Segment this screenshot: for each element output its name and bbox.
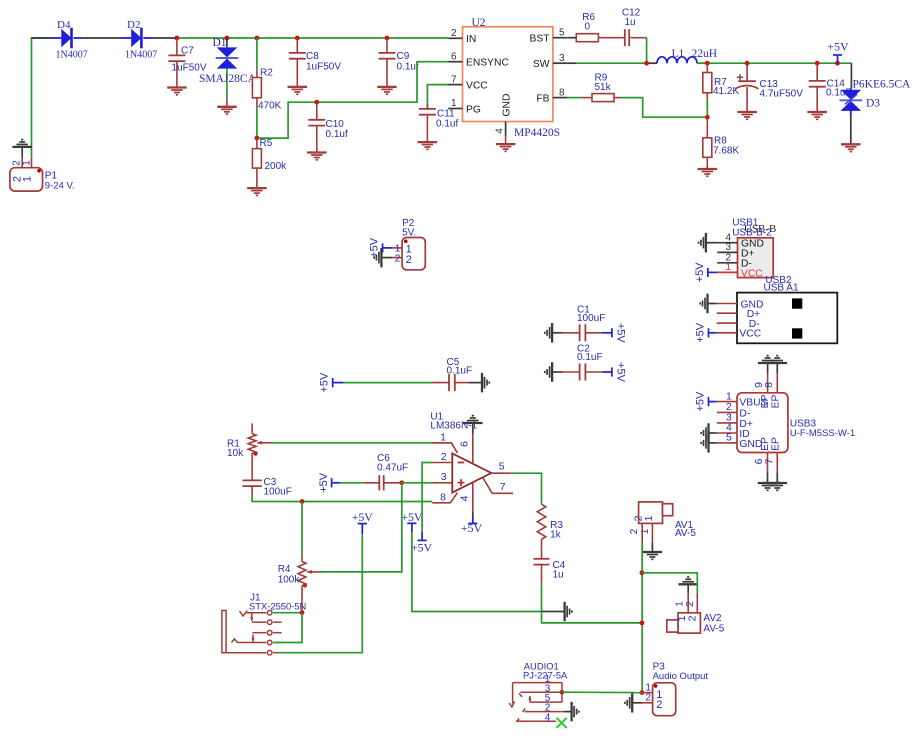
connector USB3 U-F-M5SS-W-1 bbox=[737, 393, 788, 453]
pin 4 GND bbox=[505, 122, 507, 136]
svg-text:2: 2 bbox=[685, 601, 696, 607]
pin 7 EP USB3 bottom bbox=[776, 453, 778, 473]
resistor R9 51k bbox=[581, 97, 592, 99]
svg-text:200k: 200k bbox=[265, 161, 288, 172]
wire rail to D3 bbox=[850, 63, 852, 88]
power flag +5V C1 bbox=[602, 332, 612, 334]
switch arrow J1 row3 bbox=[251, 635, 254, 642]
svg-text:0.1uf: 0.1uf bbox=[436, 119, 458, 130]
wire ENSYNC net bbox=[258, 62, 449, 138]
capacitor C7 bbox=[176, 38, 178, 55]
svg-text:U-F-M5SS-W-1: U-F-M5SS-W-1 bbox=[790, 428, 855, 439]
wire R1 wiper to U1 pin1 bbox=[272, 442, 452, 444]
diode D4 bbox=[52, 37, 62, 39]
pin 2 AV2 bbox=[696, 593, 698, 612]
ground USB3 bottom pins bbox=[758, 483, 778, 490]
svg-text:GND: GND bbox=[501, 94, 512, 117]
svg-text:7: 7 bbox=[451, 74, 457, 85]
connector AV2 AV-5 bbox=[678, 613, 700, 633]
ground USB3 pin4 bbox=[701, 423, 708, 443]
ground R8 bbox=[698, 169, 718, 176]
pin 8 FB bbox=[553, 97, 567, 99]
svg-text:2: 2 bbox=[629, 528, 640, 534]
svg-text:1u: 1u bbox=[553, 570, 564, 581]
svg-text:R5: R5 bbox=[260, 138, 273, 149]
svg-text:7: 7 bbox=[764, 458, 776, 464]
svg-text:+5V: +5V bbox=[401, 510, 423, 524]
resistor R8 7.68K bbox=[706, 117, 708, 138]
node R4 tap junction bbox=[300, 499, 305, 504]
svg-text:+5V: +5V bbox=[352, 510, 374, 524]
svg-text:R2: R2 bbox=[260, 68, 273, 79]
capacitor C6 0.47uF bbox=[363, 482, 380, 484]
svg-text:1: 1 bbox=[674, 601, 685, 607]
svg-text:SMAJ28CA: SMAJ28CA bbox=[199, 73, 257, 85]
switch arrow J1 row1 bbox=[250, 613, 253, 621]
svg-text:+5V: +5V bbox=[694, 262, 706, 283]
diode D3 TVS P6KE6.5CA bbox=[850, 88, 852, 91]
svg-text:6: 6 bbox=[459, 441, 471, 447]
svg-text:7.68K: 7.68K bbox=[713, 145, 739, 156]
svg-text:2: 2 bbox=[656, 699, 662, 711]
svg-text:8: 8 bbox=[763, 382, 775, 388]
pin 5 GND USB3 bbox=[717, 442, 737, 444]
node C6 output junction bbox=[399, 480, 404, 485]
connector P1 bbox=[21, 157, 23, 167]
svg-text:4.7uF50V: 4.7uF50V bbox=[760, 89, 804, 100]
svg-text:C9: C9 bbox=[397, 51, 410, 62]
wire L1 to +5V rail bbox=[697, 62, 851, 64]
svg-text:P6KE6.5CA: P6KE6.5CA bbox=[853, 79, 912, 91]
svg-text:0: 0 bbox=[585, 22, 591, 33]
svg-text:MP4420S: MP4420S bbox=[514, 127, 560, 139]
capacitor C9 bbox=[386, 38, 388, 53]
wire C3 to U1 pin8 net bbox=[252, 497, 432, 502]
svg-text:6: 6 bbox=[451, 51, 457, 62]
pin VCC USB2 bbox=[717, 332, 737, 334]
svg-text:2: 2 bbox=[406, 254, 412, 266]
svg-text:SW: SW bbox=[533, 59, 550, 70]
wire R4 wiper to C6 node bbox=[322, 483, 402, 572]
ground C8 bbox=[288, 87, 308, 94]
pin 3 J1 bbox=[252, 632, 266, 634]
svg-text:7: 7 bbox=[500, 481, 506, 493]
pin 3 SW bbox=[553, 62, 567, 64]
svg-text:1uF50V: 1uF50V bbox=[306, 62, 341, 73]
ground AV1 bbox=[643, 552, 663, 559]
pin 4 AUDIO1 no connect bbox=[517, 719, 520, 722]
op-amp U1 LM386N-1 bbox=[452, 454, 491, 493]
svg-text:D-: D- bbox=[739, 408, 750, 419]
svg-text:4: 4 bbox=[495, 128, 506, 134]
wire R9 to R7-R8 node bbox=[621, 98, 707, 118]
ground U1 pin6 bbox=[463, 416, 483, 423]
svg-text:470K: 470K bbox=[258, 101, 282, 112]
ground P2 bbox=[374, 248, 381, 268]
ground USB1 bbox=[699, 233, 706, 253]
power flag +5V U1 pin4 bbox=[468, 522, 477, 524]
wire AV chain bbox=[641, 543, 643, 693]
pin 2 IN bbox=[448, 37, 462, 39]
svg-text:2: 2 bbox=[441, 451, 447, 463]
op-amp U2 MP4420S body bbox=[463, 27, 553, 122]
svg-text:USB A1: USB A1 bbox=[764, 283, 799, 294]
svg-text:9-24 V.: 9-24 V. bbox=[45, 181, 75, 192]
wire D4 to D2 bbox=[82, 37, 121, 39]
ground USB3 pin5 bbox=[701, 433, 708, 453]
svg-text:C7: C7 bbox=[181, 46, 194, 57]
svg-text:VCC: VCC bbox=[741, 268, 763, 279]
ground C9 bbox=[377, 87, 397, 94]
svg-text:2: 2 bbox=[687, 615, 699, 621]
wire R6 to C12 bbox=[598, 37, 624, 39]
svg-text:1: 1 bbox=[440, 431, 446, 443]
wire +5V to C5 bbox=[343, 382, 433, 384]
wire U1 output to R3 bbox=[511, 473, 541, 504]
svg-text:AV-5: AV-5 bbox=[675, 528, 696, 539]
svg-text:IN: IN bbox=[466, 34, 476, 45]
svg-text:EP: EP bbox=[771, 395, 782, 409]
svg-text:4: 4 bbox=[459, 495, 471, 501]
capacitor C8 bbox=[296, 38, 298, 53]
pin 4 U1 to +5V bbox=[472, 482, 474, 511]
pin 1 AV1 bbox=[651, 523, 653, 542]
pin 1 P3 bbox=[642, 692, 653, 694]
pin 1 VBUS USB3 bbox=[717, 401, 737, 403]
pin 7 VCC bbox=[448, 84, 462, 86]
pin 4 GND USB1 bbox=[717, 242, 737, 244]
svg-text:10k: 10k bbox=[227, 448, 244, 459]
wire SW pin to L1 bbox=[567, 62, 576, 64]
ground U2 GND bbox=[496, 144, 515, 151]
connector P2 5V bbox=[392, 247, 402, 249]
pin 6 ENSYNC bbox=[448, 61, 462, 63]
svg-text:100uF: 100uF bbox=[264, 486, 292, 497]
svg-text:VCC: VCC bbox=[739, 329, 761, 340]
pin 2 AV1 bbox=[641, 523, 643, 542]
pin 1 J1 circle bbox=[267, 610, 272, 615]
svg-text:1k: 1k bbox=[550, 530, 562, 541]
svg-text:+5V: +5V bbox=[319, 372, 331, 393]
node AUDIO1 pin3 junction bbox=[560, 690, 565, 695]
ground C1 bbox=[545, 323, 552, 343]
svg-text:1: 1 bbox=[22, 176, 34, 182]
svg-text:L1: L1 bbox=[672, 48, 685, 60]
svg-text:+5V: +5V bbox=[461, 521, 483, 535]
node input rail junctions bbox=[175, 36, 180, 41]
svg-text:1N4007: 1N4007 bbox=[125, 50, 157, 61]
svg-text:0.1uF: 0.1uF bbox=[577, 352, 603, 363]
power flag +5V c bbox=[421, 532, 423, 540]
ground AUDIO1 pin2 bbox=[564, 711, 572, 713]
ground R5 bbox=[247, 188, 267, 195]
capacitor C2 0.1uF bbox=[562, 371, 580, 373]
ground C2 bbox=[545, 362, 552, 382]
wire J1 pin4 to pin1 node bbox=[273, 613, 302, 643]
svg-text:PG: PG bbox=[466, 104, 481, 115]
wire input from P1 to D4 bbox=[32, 38, 52, 157]
power flag +5V USB1 bbox=[707, 268, 709, 277]
svg-text:+5V: +5V bbox=[827, 40, 849, 54]
svg-text:0.1uf: 0.1uf bbox=[326, 129, 348, 140]
svg-text:5: 5 bbox=[726, 432, 732, 444]
pin 1 AV2 bbox=[687, 593, 689, 612]
pin 8 EP USB3 bbox=[776, 363, 778, 373]
svg-text:1: 1 bbox=[22, 160, 33, 166]
wire input rail bbox=[177, 37, 448, 39]
pin D- USB2 bbox=[717, 322, 737, 324]
pin 7 U1 bbox=[483, 477, 513, 493]
ground P1 bbox=[12, 140, 32, 147]
svg-text:+5V: +5V bbox=[695, 391, 707, 412]
wire AUDIO1 to P3 bbox=[562, 691, 642, 693]
svg-text:1: 1 bbox=[643, 515, 655, 521]
svg-text:D2: D2 bbox=[127, 19, 140, 31]
svg-text:R4: R4 bbox=[278, 564, 291, 575]
pin 2 D- USB3 bbox=[717, 411, 737, 413]
power flag +5V USB2 bbox=[708, 328, 710, 337]
wire C4 to output node bbox=[541, 583, 543, 611]
capacitor C10 bbox=[316, 102, 318, 120]
ground C14 bbox=[807, 112, 827, 119]
svg-text:U2: U2 bbox=[472, 17, 486, 29]
svg-text:D3: D3 bbox=[866, 98, 880, 110]
svg-text:1: 1 bbox=[451, 98, 457, 109]
svg-text:2: 2 bbox=[395, 253, 401, 264]
pin 2 AUDIO1 bbox=[523, 709, 526, 712]
ground C13 bbox=[737, 112, 757, 119]
svg-text:1N4007: 1N4007 bbox=[56, 50, 88, 61]
node R2-R5 junction bbox=[255, 136, 260, 141]
svg-text:3: 3 bbox=[725, 242, 731, 253]
svg-text:ENSYNC: ENSYNC bbox=[466, 58, 509, 69]
svg-text:0.1uf: 0.1uf bbox=[397, 62, 419, 73]
ground D1 bbox=[217, 107, 237, 114]
svg-text:EP: EP bbox=[771, 437, 782, 451]
pin 6 U1 to ground bbox=[472, 434, 474, 464]
resistor R2 470K bbox=[256, 38, 258, 69]
resistor R6 0 bbox=[576, 34, 598, 42]
wire +5V to C6 bbox=[340, 482, 363, 484]
svg-text:D1: D1 bbox=[213, 37, 227, 49]
svg-text:0.1uF: 0.1uF bbox=[447, 366, 473, 377]
svg-text:VBUS: VBUS bbox=[739, 398, 767, 409]
svg-text:VCC: VCC bbox=[466, 81, 488, 92]
capacitor C14 bbox=[816, 63, 818, 81]
capacitor C4 1u bbox=[541, 539, 543, 559]
svg-text:+5V: +5V bbox=[318, 472, 330, 493]
svg-text:3: 3 bbox=[559, 53, 565, 64]
ground C5 bbox=[469, 382, 482, 384]
pin 1 VCC USB1 bbox=[717, 271, 737, 273]
svg-text:C8: C8 bbox=[306, 51, 319, 62]
capacitor C11 bbox=[426, 104, 428, 109]
pin D+ USB2 bbox=[717, 312, 737, 314]
pin 1 J1 tip bbox=[240, 611, 247, 616]
svg-text:+5V: +5V bbox=[695, 322, 707, 343]
pin 3 D+ USB3 bbox=[717, 422, 737, 424]
pin 3 U1 non-inverting bbox=[432, 482, 452, 484]
ground AV2 bbox=[678, 577, 698, 584]
capacitor C12 bbox=[625, 29, 629, 46]
ground C10 bbox=[307, 153, 327, 160]
svg-text:AV-5: AV-5 bbox=[703, 623, 724, 634]
node J1 R4 junction bbox=[300, 610, 305, 615]
svg-text:BST: BST bbox=[529, 34, 550, 45]
resistor R5 200k bbox=[256, 138, 258, 149]
svg-text:2: 2 bbox=[451, 28, 457, 39]
svg-text:5: 5 bbox=[559, 27, 565, 38]
resistor R3 1k bbox=[537, 504, 546, 539]
capacitor C13 polarized bbox=[746, 63, 748, 81]
svg-text:1uF50V: 1uF50V bbox=[172, 62, 207, 73]
pin 2 U1 inverting bbox=[432, 462, 452, 464]
ground USB2 bbox=[700, 294, 707, 314]
wire VCC net bbox=[427, 85, 448, 110]
svg-text:4: 4 bbox=[545, 712, 551, 723]
pin 9 EP USB3 bbox=[767, 363, 769, 373]
ground USB3 top pins bbox=[758, 356, 778, 363]
pin 6 EP USB3 bottom bbox=[767, 453, 769, 473]
connector AV1 AV-5 bbox=[639, 502, 663, 524]
svg-text:D4: D4 bbox=[57, 19, 71, 31]
ground audio node bbox=[542, 611, 554, 613]
svg-text:3: 3 bbox=[441, 471, 447, 483]
power flag +5V C2 bbox=[602, 371, 612, 373]
svg-text:5: 5 bbox=[499, 461, 505, 473]
svg-text:100uF: 100uF bbox=[577, 313, 605, 324]
pin 8 U1 bbox=[432, 493, 457, 503]
svg-text:5V.: 5V. bbox=[402, 228, 416, 239]
diode D1 TVS bbox=[226, 38, 228, 47]
pin 4 ID USB3 bbox=[717, 432, 737, 434]
svg-text:2: 2 bbox=[645, 693, 651, 704]
resistor R7 41.2K bbox=[706, 63, 708, 72]
ground C11 bbox=[418, 142, 438, 149]
svg-text:+5V: +5V bbox=[615, 323, 627, 344]
svg-text:Audio Output: Audio Output bbox=[653, 671, 709, 682]
potentiometer R1 10k bbox=[251, 423, 253, 433]
no-connect X AUDIO1 pin4 bbox=[556, 718, 566, 728]
svg-text:AV2: AV2 bbox=[703, 613, 722, 624]
pin 1 U1 bbox=[432, 443, 457, 453]
svg-text:100k: 100k bbox=[278, 575, 301, 586]
svg-text:STX-2550-5N: STX-2550-5N bbox=[249, 601, 306, 612]
pin 4 J1 ring bbox=[232, 639, 238, 643]
capacitor C5 0.1uF bbox=[433, 382, 450, 384]
wire C12 to SW node bbox=[631, 37, 647, 39]
pin 5 J1 sleeve bbox=[226, 652, 266, 654]
ground C7 bbox=[167, 88, 187, 95]
power flag +5V P2 bbox=[382, 243, 384, 252]
inductor L1 22uH bbox=[657, 57, 697, 63]
pin 3 AUDIO1 bbox=[519, 693, 522, 697]
svg-text:USB-B-2: USB-B-2 bbox=[732, 227, 772, 238]
wire +5V a to J1 sleeve bbox=[361, 534, 363, 651]
pin 1 AUDIO1 bbox=[513, 682, 562, 684]
ground P3 bbox=[625, 693, 632, 713]
capacitor C3 100uF bbox=[242, 480, 261, 486]
ground D3 bbox=[841, 144, 861, 151]
node C10 junction bbox=[314, 100, 319, 105]
pin 1 PG bbox=[448, 108, 462, 110]
svg-text:GND: GND bbox=[739, 439, 762, 450]
wire C6 to U1 pin3 bbox=[402, 482, 433, 484]
pin GND USB2 bbox=[717, 303, 737, 305]
connector USB1 USB-B-2 bbox=[738, 238, 774, 278]
svg-text:FB: FB bbox=[536, 94, 549, 105]
svg-text:51k: 51k bbox=[595, 82, 612, 93]
node output rail junctions bbox=[705, 61, 710, 66]
node R7-R8-FB junction bbox=[705, 115, 710, 120]
svg-text:8: 8 bbox=[559, 87, 565, 98]
pin 5 AUDIO1 bbox=[528, 696, 531, 702]
power flag +5V output bbox=[837, 55, 839, 63]
power flag +5V C6 bbox=[331, 478, 333, 487]
capacitor C1 100uF bbox=[562, 332, 580, 334]
pin 2 D- USB1 bbox=[717, 262, 737, 264]
wire FB net bbox=[567, 97, 581, 99]
diode D2 bbox=[122, 37, 132, 39]
pin 5 U1 output bbox=[491, 472, 511, 474]
svg-text:1: 1 bbox=[725, 262, 731, 273]
wire audio node down bbox=[542, 612, 642, 623]
potentiometer R4 100k bbox=[301, 502, 303, 555]
pin 3 D+ USB1 bbox=[717, 251, 737, 253]
pin 2 P3 bbox=[642, 702, 653, 704]
pin 5 BST bbox=[553, 37, 567, 39]
node SW junction bbox=[644, 61, 649, 66]
wire +5V c to U1 pin2 bbox=[422, 463, 432, 533]
svg-text:+5V: +5V bbox=[411, 541, 433, 555]
wire BST to R6 bbox=[567, 37, 576, 39]
svg-text:1u: 1u bbox=[625, 17, 636, 28]
power flag +5V C5 bbox=[332, 378, 334, 387]
svg-text:+5V: +5V bbox=[615, 362, 627, 383]
pin 2 J1 bbox=[252, 621, 266, 623]
wire J1 pin1 to R4 bbox=[273, 612, 302, 614]
wire +5V b to audio node bbox=[412, 533, 542, 612]
connector USB2 USB A1 bbox=[737, 293, 837, 344]
power flag +5V USB3 bbox=[708, 397, 710, 406]
node AV junctions bbox=[640, 570, 645, 575]
svg-text:0.47uF: 0.47uF bbox=[377, 462, 408, 473]
wire AV2 to chain bbox=[642, 573, 697, 594]
wire D2 to C7 node bbox=[152, 37, 177, 39]
wire J1 sleeve to +5V a bbox=[278, 652, 363, 653]
svg-text:22uH: 22uH bbox=[692, 48, 718, 60]
svg-text:D+: D+ bbox=[741, 248, 754, 259]
svg-text:8: 8 bbox=[440, 491, 446, 503]
